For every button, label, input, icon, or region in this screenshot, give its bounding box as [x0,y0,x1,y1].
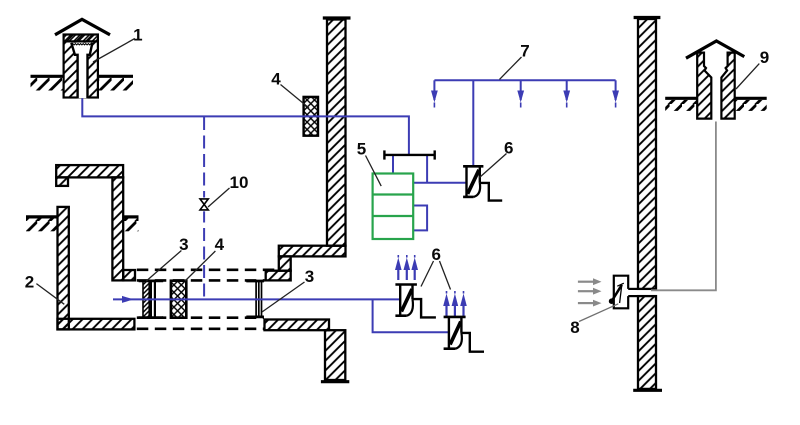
svg-text:2: 2 [25,273,34,292]
svg-text:9: 9 [760,48,769,67]
svg-text:6: 6 [504,139,513,158]
svg-text:6: 6 [431,245,440,264]
svg-text:3: 3 [305,267,314,286]
svg-text:10: 10 [230,173,249,192]
svg-text:1: 1 [133,26,142,45]
svg-text:7: 7 [520,42,529,61]
svg-text:3: 3 [179,235,188,254]
svg-text:4: 4 [271,70,281,89]
svg-text:8: 8 [570,318,579,337]
svg-text:4: 4 [215,235,225,254]
svg-text:5: 5 [357,140,366,159]
